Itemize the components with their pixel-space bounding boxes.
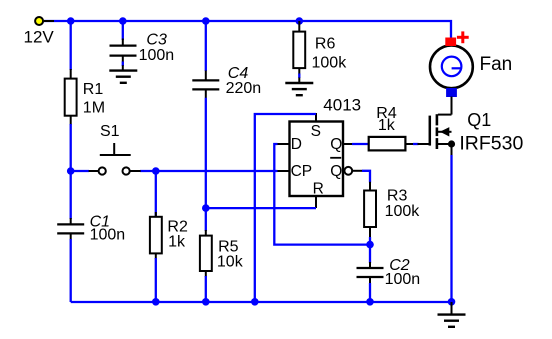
label C1 xyxy=(90,214,110,231)
pin D stub xyxy=(278,143,290,145)
value 100k xyxy=(385,203,421,220)
junction rail / S wire xyxy=(251,298,259,306)
value 220n xyxy=(226,80,262,97)
pin Qbar bubble xyxy=(344,167,362,175)
value 10k xyxy=(217,254,244,271)
wire Qbar to R3 xyxy=(362,171,370,183)
IC U1 4013 box xyxy=(290,122,344,197)
svg-text:S1: S1 xyxy=(100,123,120,140)
plus polarity mark xyxy=(457,31,469,43)
pin label CP xyxy=(291,163,313,180)
label R5 xyxy=(218,238,239,255)
junction top rail / C4 xyxy=(202,17,210,25)
capacitor C1 xyxy=(57,171,84,302)
wire Q pin to R4 xyxy=(352,143,369,145)
value 100n xyxy=(90,227,126,244)
resistor R5 xyxy=(200,230,212,302)
svg-text:R1: R1 xyxy=(83,81,104,98)
junction top rail / R6 xyxy=(296,17,304,25)
label S1 xyxy=(100,123,120,140)
svg-text:1M: 1M xyxy=(83,99,105,116)
resistor R2 xyxy=(150,171,162,302)
svg-text:220n: 220n xyxy=(226,80,262,97)
junction R3/C2/D node xyxy=(366,241,374,249)
junction S1 row / R1-C1 column xyxy=(67,167,75,175)
wire D pin feedback to R3/C2 node xyxy=(274,144,370,245)
label R3 xyxy=(387,187,408,204)
label R2 xyxy=(167,218,188,235)
svg-text:CP: CP xyxy=(291,163,313,180)
ground below C3 xyxy=(109,71,137,83)
node label 12V xyxy=(24,28,55,47)
svg-text:R6: R6 xyxy=(315,35,336,52)
svg-text:R3: R3 xyxy=(387,187,408,204)
svg-text:D: D xyxy=(291,136,302,153)
wire bottom ground rail xyxy=(71,301,452,303)
svg-text:Q1: Q1 xyxy=(467,110,491,130)
svg-text:IRF530: IRF530 xyxy=(459,133,523,155)
pin S stem xyxy=(315,113,317,122)
svg-text:Fan: Fan xyxy=(480,54,513,75)
pin label Q xyxy=(330,136,342,153)
svg-text:100k: 100k xyxy=(312,54,348,71)
value 1k xyxy=(168,233,186,250)
label C3 xyxy=(146,32,167,49)
wire C4 to R5 node xyxy=(205,98,207,231)
junction top rail / C3 xyxy=(119,17,127,25)
terminal 12V xyxy=(35,17,43,25)
svg-text:Q: Q xyxy=(330,163,342,180)
wire R3 to node xyxy=(369,237,371,245)
pin Q stub xyxy=(343,143,353,145)
pin label D xyxy=(291,136,302,153)
svg-text:100n: 100n xyxy=(385,271,421,288)
junction C4/R5/R-pin node xyxy=(202,204,210,212)
value 100n xyxy=(139,47,175,64)
resistor R4 xyxy=(369,137,414,151)
wire R1 branch upper xyxy=(70,21,72,70)
svg-text:100n: 100n xyxy=(90,227,126,244)
switch S1 xyxy=(89,143,141,175)
wire S pin to ground rail xyxy=(255,114,316,302)
wire source to ground rail xyxy=(450,155,452,302)
label 4013 xyxy=(323,96,361,115)
svg-text:1k: 1k xyxy=(168,233,186,250)
wire R pin to C4/R5 node xyxy=(206,207,316,209)
value 1k xyxy=(378,117,396,134)
resistor R3 xyxy=(364,182,376,238)
svg-text:1k: 1k xyxy=(378,117,396,134)
junction rail / C2 xyxy=(366,298,374,306)
svg-text:100k: 100k xyxy=(385,203,421,220)
label C4 xyxy=(228,65,249,82)
transistor Q1 MOSFET xyxy=(430,97,455,156)
capacitor C4 xyxy=(192,21,219,98)
pin R stem xyxy=(315,196,317,208)
label R1 xyxy=(83,81,104,98)
capacitor C3 xyxy=(110,21,137,71)
pin CP stub xyxy=(278,170,290,172)
pin label R xyxy=(313,181,324,198)
resistor R1 xyxy=(65,69,77,125)
junction top rail / R1 xyxy=(67,17,75,25)
label R6 xyxy=(315,35,336,52)
wire fan to drain xyxy=(451,97,453,101)
wire top supply rail 12V xyxy=(44,20,451,39)
motor Fan xyxy=(430,38,473,98)
svg-text:12V: 12V xyxy=(24,28,55,47)
value 100n xyxy=(385,271,421,288)
pin label S xyxy=(311,123,321,140)
svg-text:4013: 4013 xyxy=(323,96,361,115)
label Q1 xyxy=(467,110,491,130)
junction rail / R2 xyxy=(152,298,160,306)
svg-text:10k: 10k xyxy=(217,254,244,271)
junction rail / R5 xyxy=(202,298,210,306)
value IRF530 xyxy=(459,133,523,155)
wire S1/CP row xyxy=(71,170,278,172)
svg-text:R: R xyxy=(313,181,324,198)
value 100k xyxy=(312,54,348,71)
label C2 xyxy=(389,257,410,274)
svg-text:S: S xyxy=(311,123,321,140)
junction S1 row / R2 column xyxy=(152,167,160,175)
ground symbol main xyxy=(438,302,466,327)
svg-text:100n: 100n xyxy=(139,47,175,64)
junction rail / MOSFET source xyxy=(448,298,456,306)
ground below R6 xyxy=(285,83,313,95)
value 1M xyxy=(83,99,105,116)
resistor R6 xyxy=(293,21,305,83)
pin label Qbar xyxy=(330,158,342,180)
label R4 xyxy=(376,105,397,122)
label Fan xyxy=(480,54,513,75)
svg-text:Q: Q xyxy=(330,136,342,153)
wire R1 to S1 row xyxy=(70,124,72,171)
wire R4 to gate xyxy=(413,143,430,145)
capacitor C2 xyxy=(357,245,384,302)
